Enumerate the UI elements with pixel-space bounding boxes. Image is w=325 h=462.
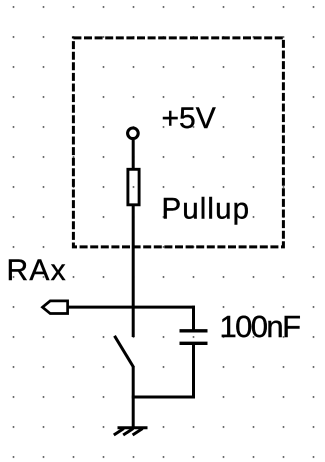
wire capacitor bottom plate to bottom wire — [192, 343, 195, 398]
ground symbol — [114, 428, 148, 435]
wire pin RAx to capacitor branch — [68, 306, 195, 309]
svg-text:RAx: RAx — [7, 254, 67, 287]
svg-text:Pullup: Pullup — [162, 193, 251, 226]
resistor R1 (Pullup) — [128, 169, 139, 205]
switch SW1 blade — [115, 336, 134, 368]
svg-text:+5V: +5V — [162, 102, 216, 135]
capacitor C1 bottom plate — [180, 342, 208, 345]
svg-text:100nF: 100nF — [220, 309, 301, 344]
wire resistor to junction and switch top contact — [132, 205, 135, 337]
wire terminal to resistor — [132, 140, 135, 169]
capacitor C1 top plate — [180, 329, 208, 332]
module boundary (dashed box) — [73, 38, 283, 247]
bottom wire switch to capacitor — [132, 396, 195, 399]
pin RAx (pentagon connector) — [43, 301, 68, 314]
wire switch bottom to ground — [132, 367, 135, 428]
+5V terminal circle — [128, 128, 139, 139]
wire down to capacitor top plate — [192, 306, 195, 331]
